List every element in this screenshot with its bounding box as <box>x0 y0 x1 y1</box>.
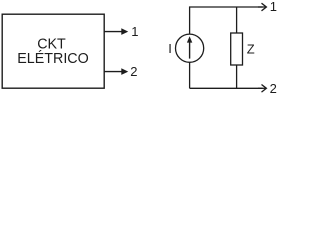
svg-text:2: 2 <box>270 81 277 96</box>
wire current source to bottom net <box>189 62 191 88</box>
svg-text:ELÉTRICO: ELÉTRICO <box>17 50 89 67</box>
arrowhead node 1 (open chevron) <box>262 3 267 11</box>
wire top net <box>190 7 263 34</box>
wire terminal 1 of block <box>104 31 122 33</box>
impedance Z <box>231 33 243 65</box>
svg-text:2: 2 <box>130 64 137 79</box>
svg-text:I: I <box>168 41 172 56</box>
arrowhead terminal 2 <box>121 68 128 75</box>
block CKT ELÉTRICO <box>2 14 104 88</box>
arrowhead node 2 (open chevron) <box>262 85 267 93</box>
wire Z to bottom net <box>236 65 238 88</box>
svg-text:1: 1 <box>131 24 138 39</box>
svg-text:CKT: CKT <box>37 36 66 52</box>
wire top net to Z <box>236 7 238 33</box>
current source I (circle) <box>176 34 204 62</box>
wire bottom net <box>190 87 263 89</box>
current source arrow <box>189 41 191 59</box>
svg-text:1: 1 <box>270 0 277 14</box>
wire terminal 2 of block <box>104 71 122 73</box>
svg-text:Z: Z <box>247 41 255 56</box>
arrowhead terminal 1 <box>121 28 128 35</box>
